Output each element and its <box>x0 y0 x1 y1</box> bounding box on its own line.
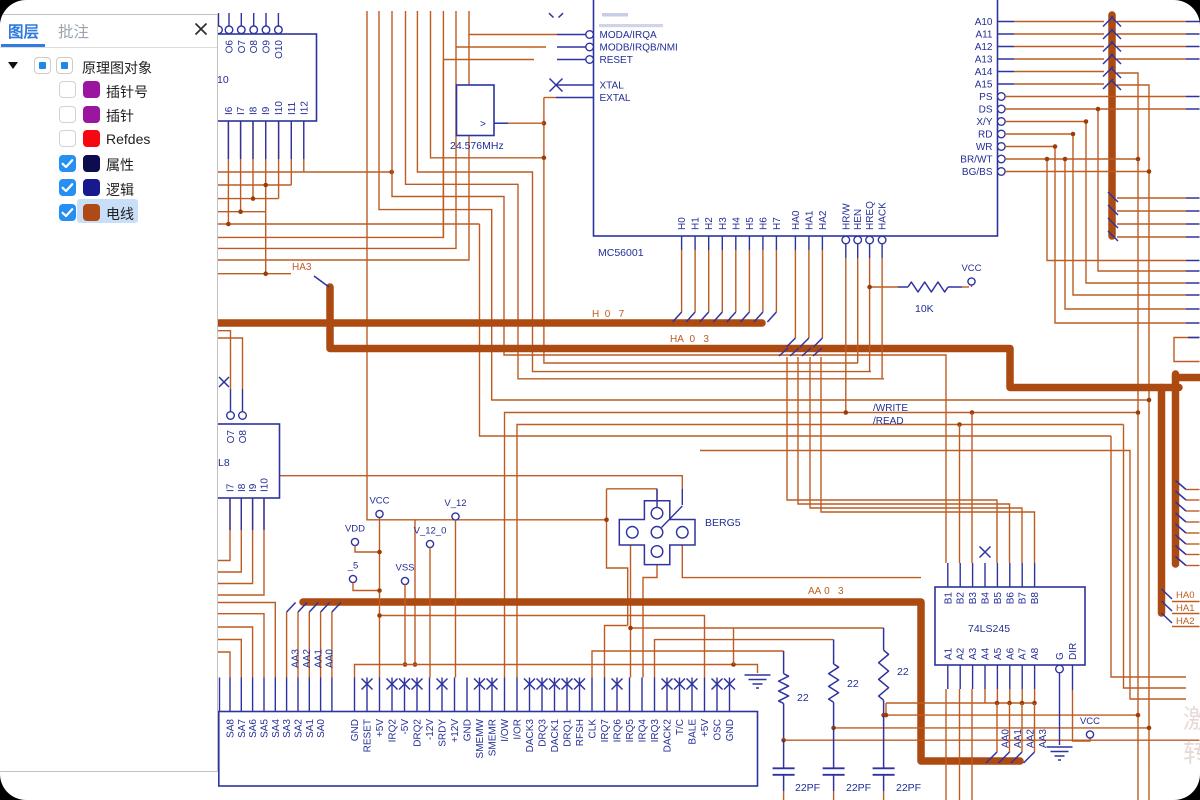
wire I11 net <box>290 121 292 185</box>
wire SA8 <box>218 652 230 678</box>
wire I7 net <box>240 121 242 212</box>
wire HEN <box>857 244 859 258</box>
wire DIR to VCC <box>1072 665 1074 690</box>
pin ISA DRQ3 <box>541 678 543 712</box>
bus HA0-3 thick <box>330 287 1179 388</box>
svg-text:I8: I8 <box>237 483 248 492</box>
bus tap A12 <box>1103 42 1113 52</box>
svg-text:AA1: AA1 <box>313 649 324 668</box>
wire v415 drop <box>414 520 416 665</box>
wire horizontal y=185 from panel <box>218 184 291 186</box>
bus exit y491 <box>1176 491 1187 500</box>
resistor R 10K <box>898 286 908 288</box>
svg-text:L8: L8 <box>218 457 230 469</box>
wire v417 staircase to HREQ <box>417 11 871 372</box>
pin 74LS245 B6 <box>1009 563 1011 587</box>
svg-text:MODA/IRQA: MODA/IRQA <box>600 30 658 41</box>
wire EXTAL net vertical <box>544 98 858 364</box>
pin ISA SA6 <box>252 678 254 712</box>
bus HA0 exit <box>1162 589 1173 599</box>
faint label remnant row2 <box>599 24 663 27</box>
wire I9 net / HA3 branch <box>265 121 267 274</box>
wire R3 bottom row <box>884 714 1138 716</box>
svg-text:10K: 10K <box>915 303 934 315</box>
IC U10 (partially hidden) body <box>150 34 317 121</box>
wire HA tap to B pin x1009.5 <box>798 357 1010 563</box>
svg-text:A15: A15 <box>975 80 993 91</box>
pin ISA GND <box>729 678 731 712</box>
svg-text:O10: O10 <box>274 40 285 59</box>
svg-text:IRQ6: IRQ6 <box>613 719 624 743</box>
bus HA2 exit <box>1162 613 1173 623</box>
wire H7 to bus <box>775 236 777 250</box>
wire SA4 <box>218 603 275 678</box>
pin MC56001 RD <box>998 130 1006 138</box>
pin ISA SA9 cut <box>219 678 221 712</box>
svg-text:A11: A11 <box>975 30 992 41</box>
pin MC56001 MODA/IRQA <box>557 34 586 36</box>
pin stub <box>290 121 292 159</box>
svg-text:SA0: SA0 <box>316 719 327 738</box>
svg-text:VDD: VDD <box>345 524 365 535</box>
svg-text:B4: B4 <box>981 592 992 605</box>
pin MC56001 PS <box>998 93 1006 101</box>
ground symbol near ISA <box>745 675 771 688</box>
svg-text:SA7: SA7 <box>237 719 248 738</box>
svg-text:24.576MHz: 24.576MHz <box>450 140 504 152</box>
pin MC56001 RESET <box>557 59 586 61</box>
pin ISA SA3 <box>286 678 288 712</box>
pin stub <box>265 121 267 159</box>
pin ISA T/C <box>679 678 681 712</box>
pin ISA RFSH <box>579 678 581 712</box>
svg-text:O8: O8 <box>249 40 260 54</box>
no-connect X on B4 <box>980 547 991 558</box>
svg-text:AA0: AA0 <box>325 649 336 668</box>
wire H1 to bus <box>694 236 696 250</box>
svg-text:IRQ2: IRQ2 <box>388 719 399 743</box>
svg-text:GND: GND <box>725 719 736 741</box>
wire BERG5 right net <box>682 538 921 578</box>
pin MC56001 A11 <box>998 33 1015 35</box>
wire MODA net <box>469 11 557 35</box>
wire IRQ7 to BERG top chain <box>605 626 628 678</box>
wire v405 staircase to HACK <box>406 11 885 379</box>
svg-text:EXTAL: EXTAL <box>600 93 631 104</box>
IC ISA connector body <box>219 712 758 787</box>
svg-text:HA3: HA3 <box>292 262 312 273</box>
svg-text:+12V: +12V <box>450 719 461 743</box>
bus tap A13 <box>1103 54 1113 64</box>
svg-text:H2: H2 <box>704 217 715 230</box>
wire RESET net <box>218 11 534 237</box>
pin ISA SA5 <box>263 678 265 712</box>
pin 74LS245 A1 <box>947 665 949 689</box>
wire stub up from GND line <box>733 628 735 665</box>
svg-text:O7: O7 <box>226 430 237 444</box>
wire HA2 to bus <box>821 236 823 250</box>
wire I12 net <box>303 121 305 172</box>
svg-text:HA2: HA2 <box>1176 616 1194 627</box>
pin stub <box>278 121 280 159</box>
pin U10 top O7 <box>240 13 242 27</box>
svg-text:AA3: AA3 <box>291 649 302 668</box>
wire RD loopback <box>1005 134 1186 295</box>
svg-text:H1: H1 <box>691 217 702 230</box>
wire H4 to bus <box>735 236 737 250</box>
resistor R3 22 <box>883 628 885 650</box>
svg-text:SA4: SA4 <box>271 719 282 738</box>
svg-text:DS: DS <box>979 105 993 116</box>
svg-text:HA0: HA0 <box>791 210 802 230</box>
svg-text:H6: H6 <box>758 217 769 230</box>
svg-text:激: 激 <box>1183 704 1200 734</box>
wire H0 to bus <box>681 236 683 250</box>
wire BR/WT <box>1005 158 1138 160</box>
svg-text:A1: A1 <box>943 647 954 660</box>
faint label remnant top <box>602 13 628 17</box>
wire GND net y664.5 to ground <box>355 665 758 678</box>
pin ISA IRQ3 <box>654 678 656 712</box>
wire right band y450 loop <box>700 451 1186 700</box>
pin ISA DACK3 <box>529 678 531 712</box>
wire BERG5 left net <box>630 538 632 678</box>
bus exit y524 <box>1176 524 1187 533</box>
svg-text:V_12: V_12 <box>444 498 466 509</box>
pin ISA OSC <box>716 678 718 712</box>
wire R2 bottom row <box>834 727 1149 729</box>
wire right band y436 loop <box>1111 436 1186 677</box>
bus A10-15 thick vertical <box>1108 15 1116 236</box>
wire A5-A8 row y703 <box>886 703 1036 715</box>
pin ISA +12V <box>454 678 456 712</box>
svg-text:B5: B5 <box>993 592 1004 605</box>
bus HA1 exit <box>1162 601 1173 611</box>
svg-text:H3: H3 <box>718 217 729 230</box>
wire +5V2 feed y615.5 <box>380 616 705 678</box>
pin ISA IRQ6 <box>616 678 618 712</box>
svg-text:A7: A7 <box>1018 647 1029 660</box>
wire BERG5 center net from panel <box>218 476 682 489</box>
svg-text:HREQ: HREQ <box>865 201 876 230</box>
svg-text:A5: A5 <box>993 647 1004 660</box>
wire MODB net <box>456 11 546 47</box>
wire I8 net <box>252 121 254 199</box>
pin MC56001 A15 <box>998 83 1015 85</box>
power VCC at 10K <box>971 282 973 288</box>
pin ISA SA7 <box>240 678 242 712</box>
pin ISA SMEMR <box>491 678 493 712</box>
pin ISA -5V <box>404 678 406 712</box>
svg-text:SA8: SA8 <box>226 719 237 738</box>
svg-text:+5V: +5V <box>700 719 711 737</box>
pin 74LS245 A5 <box>996 665 998 689</box>
svg-text:A2: A2 <box>956 647 967 660</box>
pin ISA SA2 <box>297 678 299 712</box>
svg-text:T/C: T/C <box>675 719 686 735</box>
svg-text:O9: O9 <box>262 40 273 54</box>
svg-text:B8: B8 <box>1030 592 1041 605</box>
wire HA tap to B pin x1034.5 <box>821 357 1035 563</box>
wire I6 net <box>227 121 229 224</box>
svg-text:10: 10 <box>217 74 229 86</box>
pin U10 top O5 <box>218 13 220 27</box>
wire A3 to bottom edge <box>971 689 973 800</box>
svg-text:I12: I12 <box>299 101 310 115</box>
svg-text:A13: A13 <box>975 55 993 66</box>
pin ISA SA0 <box>320 678 322 712</box>
wire AA2 drop <box>1021 703 1023 752</box>
pin MC56001 A12 <box>998 46 1015 48</box>
svg-text:A6: A6 <box>1005 647 1016 660</box>
capacitor C2 22PF <box>833 728 835 768</box>
pin ISA I/OW <box>504 678 506 712</box>
junction dots left staircase <box>226 222 231 227</box>
pin stub <box>227 121 229 159</box>
svg-text:WR: WR <box>976 142 993 153</box>
svg-text:RESET: RESET <box>600 55 633 66</box>
svg-text:RD: RD <box>978 130 992 141</box>
wire v392 staircase to B1 <box>392 11 946 563</box>
pin 74LS245 B7 <box>1021 563 1023 587</box>
svg-text:A3: A3 <box>968 647 979 660</box>
pin ISA +5V <box>704 678 706 712</box>
pin ISA CLK <box>591 678 593 712</box>
pin 74LS245 B4 <box>984 563 986 587</box>
svg-text:MODB/IRQB/NMI: MODB/IRQB/NMI <box>600 43 678 54</box>
pin ISA DACK2 <box>666 678 668 712</box>
pin ISA +5V <box>379 678 381 712</box>
pin 74LS245 A2 <box>959 665 961 689</box>
bus AA0-3 thick <box>303 602 1020 761</box>
label HA3 + lead <box>218 273 291 275</box>
wire AA0 drop <box>996 703 998 752</box>
wire HREQ <box>869 244 871 258</box>
wire DS branch loopback <box>1098 109 1186 271</box>
svg-text:22: 22 <box>897 666 909 678</box>
wire crystal output <box>494 122 544 124</box>
wire AA tap AA1 <box>308 612 310 678</box>
svg-text:I/OW: I/OW <box>500 718 511 741</box>
wire HA tap to B pin x1022 <box>810 357 1022 563</box>
svg-text:22: 22 <box>847 678 859 690</box>
wire A2 to bottom edge <box>959 689 961 800</box>
capacitor C3 22PF <box>883 715 885 768</box>
bus tap A10 <box>1103 17 1113 27</box>
wire HR/W to /WRITE <box>845 244 847 258</box>
power VCC rail <box>379 518 381 678</box>
wire B2 drop <box>959 425 961 564</box>
pin 74LS245 B8 <box>1034 563 1036 587</box>
svg-text:22PF: 22PF <box>795 782 820 794</box>
pin 74LS245 A6 <box>1009 665 1011 689</box>
bus tap A15 <box>1103 79 1113 89</box>
svg-text:/READ: /READ <box>873 416 904 427</box>
wires L8 bottom pins to panel <box>218 498 230 561</box>
svg-text:XTAL: XTAL <box>600 81 625 92</box>
svg-text:X/Y: X/Y <box>976 117 992 128</box>
svg-text:VCC: VCC <box>369 496 389 507</box>
resistor R2 22 <box>833 640 835 664</box>
pin ISA SRDY <box>441 678 443 712</box>
svg-text:H5: H5 <box>745 217 756 230</box>
svg-text:DIR: DIR <box>1068 643 1079 660</box>
BERG5 diagonal <box>662 506 683 528</box>
wire HA tap to B pin x997 <box>787 357 997 563</box>
svg-text:HA1: HA1 <box>1176 603 1194 614</box>
wire HREQ to 10K <box>870 286 898 288</box>
wire bus vertical v367 (to BERG area) <box>367 11 607 520</box>
pin ISA GND <box>354 678 356 712</box>
pin ISA IRQ2 <box>391 678 393 712</box>
pin U10 top O8 <box>253 13 255 27</box>
wire WR loopback <box>1005 147 1186 324</box>
wire RESET vertical join <box>442 60 444 238</box>
pin U10 top O10 <box>277 13 279 27</box>
svg-text:I9: I9 <box>261 106 272 115</box>
wire horizontal y=198.6 from panel <box>218 198 279 200</box>
pin MC56001 A14 <box>998 71 1015 73</box>
svg-text:>: > <box>480 119 486 130</box>
svg-text:MC56001: MC56001 <box>598 247 644 259</box>
svg-text:PS: PS <box>979 92 993 103</box>
svg-text:SA5: SA5 <box>260 719 271 738</box>
svg-text:RFSH: RFSH <box>575 719 586 746</box>
svg-text:HA0: HA0 <box>1176 590 1194 601</box>
bus exit y545.5 <box>1176 546 1187 555</box>
svg-text:B7: B7 <box>1018 592 1029 605</box>
pin ISA SA1 <box>308 678 310 712</box>
bus exit y513 <box>1176 513 1187 522</box>
wire bus exit y85 down right side <box>1117 85 1149 800</box>
svg-text:BALE: BALE <box>688 719 699 745</box>
no-connect X left <box>219 377 229 387</box>
svg-text:BR/WT: BR/WT <box>960 155 992 166</box>
capacitor C1 22PF <box>783 740 785 768</box>
pin 74LS245 B1 <box>947 563 949 587</box>
svg-text:B3: B3 <box>968 592 979 605</box>
pin 74LS245 A8 <box>1034 665 1036 689</box>
wire A1 to bottom edge <box>945 689 947 800</box>
svg-text:O8: O8 <box>238 430 249 444</box>
pin ISA SA8 <box>229 678 231 712</box>
svg-text:转: 转 <box>1183 738 1200 768</box>
pin ISA DRQ2 <box>416 678 418 712</box>
svg-text:SMEMR: SMEMR <box>488 719 499 756</box>
X on last GND <box>724 679 735 690</box>
svg-text:SMEMW: SMEMW <box>475 718 486 758</box>
bus tap A14 <box>1103 67 1113 77</box>
pin ISA SMEMW <box>479 678 481 712</box>
wire H2 to bus <box>708 236 710 250</box>
wire y436 net <box>480 224 1112 436</box>
wire R1 bottom row <box>784 739 1200 741</box>
wire B3 drop <box>971 413 973 564</box>
pin U10 top O6 <box>228 13 230 27</box>
wire horizontal y=224 from panel <box>218 223 480 225</box>
wire I10 net <box>278 121 280 199</box>
svg-text:-12V: -12V <box>425 719 436 740</box>
svg-text:DACK1: DACK1 <box>550 719 561 753</box>
svg-text:I9: I9 <box>248 483 259 492</box>
svg-text:+5V: +5V <box>375 719 386 737</box>
svg-text:A10: A10 <box>975 17 993 28</box>
wire v430 staircase to crystal net <box>431 11 545 158</box>
svg-text:SRDY: SRDY <box>438 719 449 747</box>
svg-text:HR/W: HR/W <box>841 203 852 230</box>
svg-text:IRQ7: IRQ7 <box>600 719 611 743</box>
svg-text:I8: I8 <box>249 106 260 115</box>
svg-text:O6: O6 <box>225 40 236 54</box>
svg-text:A12: A12 <box>975 42 993 53</box>
wire IRQ3 to R2 <box>655 640 834 678</box>
wire AA tap AA0 <box>320 612 322 678</box>
wire H5 to bus <box>748 236 750 250</box>
wire SA6 <box>218 627 253 678</box>
wire CLK to R1 <box>592 651 784 678</box>
wire BG/BS <box>1005 171 1149 173</box>
svg-text:A8: A8 <box>1030 647 1041 660</box>
no-connect X at top edge (cut) <box>549 13 563 17</box>
svg-text:BERG5: BERG5 <box>705 517 741 529</box>
pin 74LS245 A7 <box>1021 665 1023 689</box>
wire AA1 drop <box>1009 703 1011 752</box>
pin ISA GND <box>466 678 468 712</box>
pin 74LS245 B3 <box>972 563 974 587</box>
svg-text:IRQ5: IRQ5 <box>625 719 636 743</box>
wire A4-A8 stubs to row <box>984 689 986 703</box>
wire right band /READ loop <box>1124 425 1187 689</box>
svg-text:VCC: VCC <box>1080 716 1100 727</box>
pin 74LS245 A3 <box>972 665 974 689</box>
wire HA0 to bus <box>794 236 796 250</box>
wire /WRITE net <box>505 413 1139 678</box>
svg-text:CLK: CLK <box>588 719 599 739</box>
pin MC56001 X/Y <box>998 118 1006 126</box>
svg-text:A14: A14 <box>975 67 993 78</box>
svg-text:GND: GND <box>463 719 474 741</box>
wire H6 to bus <box>762 236 764 250</box>
svg-text:AA 0 3: AA 0 3 <box>808 586 844 597</box>
svg-text:22PF: 22PF <box>896 782 921 794</box>
wire SA7 <box>218 640 241 678</box>
pin ISA SA4 <box>274 678 276 712</box>
wire EXTAL stub <box>544 97 556 99</box>
wire X/Y loopback <box>1005 122 1186 284</box>
svg-text:HACK: HACK <box>878 202 889 230</box>
bus exit y556.5 <box>1176 557 1187 566</box>
svg-text:HEN: HEN <box>853 209 864 230</box>
wires from panel to L8 top pins <box>218 331 231 389</box>
svg-text:HA1: HA1 <box>804 210 815 230</box>
svg-text:AA2: AA2 <box>302 649 313 668</box>
pin U10 top O9 <box>265 13 267 27</box>
svg-text:DRQ1: DRQ1 <box>563 719 574 747</box>
IC L8 body <box>150 424 280 498</box>
svg-text:I10: I10 <box>274 101 285 115</box>
wire bus exit y73 down right side <box>1117 73 1138 800</box>
svg-text:22PF: 22PF <box>846 782 871 794</box>
wire A-bus bottom exits <box>1117 197 1186 199</box>
wire DS to right edge <box>1005 108 1186 110</box>
svg-text:VSS: VSS <box>395 563 414 574</box>
pin ISA IRQ5 <box>629 678 631 712</box>
bus tap A11 <box>1103 29 1113 39</box>
pin stub <box>240 121 242 159</box>
wire HA1 to bus <box>808 236 810 250</box>
wire right edge U loop <box>1174 338 1200 362</box>
pin MC56001 A13 <box>998 58 1015 60</box>
